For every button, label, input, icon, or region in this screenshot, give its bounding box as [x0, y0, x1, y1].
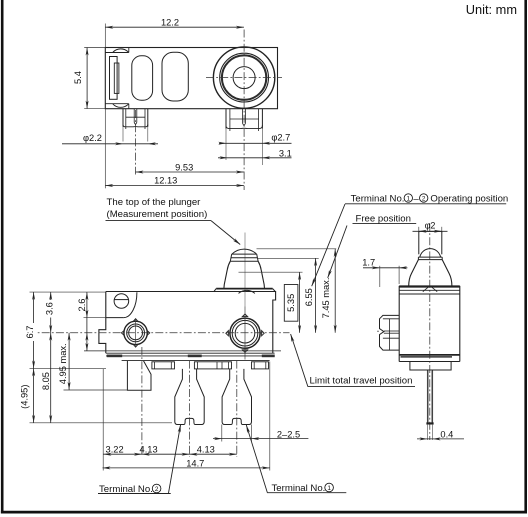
svg-text:2.6: 2.6	[77, 299, 87, 312]
svg-text:12.2: 12.2	[161, 17, 179, 27]
svg-text:(Measurement position): (Measurement position)	[107, 209, 208, 220]
svg-text:3.1: 3.1	[279, 149, 292, 159]
svg-text:4.13: 4.13	[197, 445, 215, 455]
svg-text:(4.95): (4.95)	[20, 385, 30, 409]
svg-text:–: –	[413, 193, 419, 204]
svg-text:φ2.7: φ2.7	[271, 132, 290, 142]
svg-text:2: 2	[422, 195, 426, 202]
svg-text:3.22: 3.22	[106, 445, 124, 455]
svg-text:8.05: 8.05	[41, 372, 51, 390]
svg-text:9.53: 9.53	[175, 163, 193, 173]
svg-text:Operating position: Operating position	[430, 193, 508, 204]
svg-text:2: 2	[155, 486, 159, 493]
svg-text:3.6: 3.6	[44, 302, 54, 315]
svg-text:2–2.5: 2–2.5	[277, 430, 300, 440]
svg-text:1.7: 1.7	[362, 258, 375, 268]
svg-text:0.4: 0.4	[440, 430, 453, 440]
svg-text:7.45 max.: 7.45 max.	[321, 278, 331, 319]
svg-text:φ2: φ2	[425, 221, 436, 231]
svg-text:The top of the plunger: The top of the plunger	[107, 197, 202, 208]
svg-text:14.7: 14.7	[186, 458, 204, 468]
svg-text:Unit: mm: Unit: mm	[466, 2, 517, 17]
svg-text:4.13: 4.13	[140, 445, 158, 455]
svg-text:φ2.2: φ2.2	[83, 133, 102, 143]
svg-text:1: 1	[407, 195, 411, 202]
svg-text:Terminal No.: Terminal No.	[351, 193, 405, 204]
svg-text:1: 1	[327, 485, 331, 492]
svg-text:5.4: 5.4	[73, 71, 83, 84]
svg-text:4.95 max.: 4.95 max.	[58, 343, 68, 384]
svg-text:5.35: 5.35	[286, 294, 296, 312]
svg-text:Free position: Free position	[356, 214, 411, 225]
svg-text:Terminal No.: Terminal No.	[272, 483, 326, 494]
svg-text:12.13: 12.13	[154, 176, 177, 186]
svg-text:6.7: 6.7	[25, 326, 35, 339]
svg-text:6.55: 6.55	[304, 288, 314, 306]
svg-text:Limit total travel position: Limit total travel position	[310, 376, 413, 387]
